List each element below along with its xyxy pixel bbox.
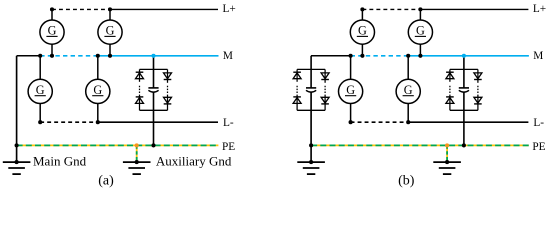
svg-text:M: M	[223, 50, 233, 62]
svg-text:Main Gnd: Main Gnd	[33, 153, 87, 168]
node L+/G2	[108, 7, 112, 11]
node ground symbol left (b)	[309, 160, 313, 164]
svg-text:PE: PE	[222, 141, 235, 153]
diode D1 lower-left (cathode up)	[136, 97, 144, 104]
net L+ (b) dashed wire segment	[362, 8, 420, 10]
D2 left column series dots (more diodes)	[296, 86, 298, 93]
D1 left column wire upper	[139, 69, 141, 81]
wire left network vertical top (b)	[310, 56, 312, 88]
wire right ground stub (green/yellow) (b)	[446, 145, 448, 162]
wire aux network to M (a)	[153, 56, 155, 88]
wire right network to M (b)	[463, 56, 465, 88]
node M/G4	[96, 54, 100, 58]
wire G2 top stub	[109, 9, 111, 20]
source G6 (b, L+ to M)	[408, 20, 432, 44]
source G1 (a, L+ to M)	[40, 20, 64, 44]
source G8 (b, M to L-)	[396, 79, 420, 103]
wire G5 bottom stub	[361, 44, 363, 56]
net L+ (a) dashed wire segment	[52, 8, 110, 10]
svg-text:Auxiliary Gnd: Auxiliary Gnd	[156, 153, 232, 168]
svg-text:(a): (a)	[98, 173, 114, 188]
D2 right column wire lower	[324, 95, 326, 111]
diode D2 lower-right (cathode down)	[321, 97, 329, 104]
diode D1 upper-right (cathode down)	[164, 73, 172, 80]
grounding network D3 bottom rail wire	[450, 109, 478, 111]
wire auxiliary ground stub (green/yellow)	[136, 145, 138, 162]
ground earth symbol right (b)	[433, 162, 461, 174]
D2 left column wire upper	[296, 69, 298, 81]
main ground earth symbol (a)	[3, 162, 31, 174]
D1 right column wire lower	[167, 95, 169, 111]
svg-text:G: G	[358, 23, 367, 37]
D3 left column wire upper	[449, 69, 451, 81]
wire main ground branch vertical (a)	[16, 56, 18, 162]
capacitor D1 curved bottom plate	[148, 90, 158, 92]
svg-text:G: G	[416, 23, 425, 37]
net L- (a) solid wire segment	[98, 121, 218, 123]
node M / aux network (cyan)	[151, 54, 155, 58]
node M/G5	[360, 54, 364, 58]
node L-/G8	[406, 120, 410, 124]
net M (a) black wire from left branch	[17, 55, 41, 57]
auxiliary ground earth symbol (a)	[123, 162, 151, 174]
grounding network D2 top rail wire	[297, 68, 325, 70]
node L+/G5	[360, 7, 364, 11]
D3 left column wire lower	[449, 95, 451, 111]
capacitor D2 curved bottom plate	[306, 90, 316, 92]
D3 right column series dots (more diodes)	[477, 86, 479, 93]
svg-text:G: G	[404, 83, 413, 97]
svg-text:L-: L-	[533, 117, 544, 129]
wire G2 bottom stub	[109, 44, 111, 56]
D2 right column wire upper	[324, 69, 326, 82]
wire M to left network (b) horizontal	[311, 55, 351, 57]
node L-/G4	[96, 120, 100, 124]
svg-text:L+: L+	[533, 3, 546, 15]
net L+ (b) solid wire segment	[420, 8, 528, 10]
svg-text:(b): (b)	[398, 173, 415, 188]
wire G8 bottom stub	[407, 104, 409, 123]
node main ground / PE junction (a)	[15, 143, 19, 147]
diode D2 upper-right (cathode down)	[321, 73, 329, 80]
net M (a) solid cyan wire segment	[98, 55, 219, 57]
D1 left column wire lower	[139, 95, 141, 111]
node M / right network (cyan)	[462, 54, 466, 58]
wire aux network to PE (a)	[153, 92, 155, 145]
node L-/G7	[349, 120, 353, 124]
capacitor D1 midpoint (top plate)	[148, 87, 158, 89]
ground earth symbol left (b)	[297, 162, 325, 174]
wire G3 bottom stub	[39, 104, 41, 123]
node L-/G3	[38, 120, 42, 124]
node L+/G6	[418, 7, 422, 11]
D3 left column series dots (more diodes)	[449, 86, 451, 93]
D3 right column wire lower	[477, 95, 479, 111]
svg-text:G: G	[346, 83, 355, 97]
svg-text:PE: PE	[532, 141, 545, 153]
D2 right column series dots (more diodes)	[324, 86, 326, 93]
wire G5 top stub	[361, 9, 363, 20]
net M (b) black wire from diode ground network	[311, 55, 351, 57]
svg-text:G: G	[36, 83, 45, 97]
capacitor D3 curved bottom plate	[459, 90, 469, 92]
net L+ (a) solid wire segment	[110, 8, 218, 10]
wire G7 top stub	[350, 56, 352, 80]
net L- (a) dashed wire segment	[40, 121, 98, 123]
node PE / auxiliary ground (orange)	[135, 143, 139, 147]
node auxiliary ground symbol junction	[135, 160, 139, 164]
node M/G1	[50, 54, 54, 58]
wire G7 bottom stub	[350, 104, 352, 123]
node M/G3	[38, 54, 42, 58]
svg-text:L-: L-	[223, 117, 234, 129]
capacitor D2 midpoint (top plate)	[306, 87, 316, 89]
net PE (b) green/yellow earth wire	[311, 144, 529, 146]
D3 right column wire upper	[477, 69, 479, 82]
grounding network D3 top rail wire	[450, 68, 478, 70]
wire G8 top stub	[407, 56, 409, 80]
source G4 (a, M to L-)	[86, 79, 110, 103]
source G2 (a, L+ to M)	[98, 20, 122, 44]
net M (b) solid cyan wire segment	[408, 55, 529, 57]
net M (a) dashed cyan wire segment	[40, 55, 98, 57]
net L- (b) solid wire segment	[408, 121, 528, 123]
diode D2 upper-left (cathode up)	[293, 72, 301, 79]
node M/G7	[349, 54, 353, 58]
source G5 (b, L+ to M)	[350, 20, 374, 44]
node M/G6	[418, 54, 422, 58]
diode D1 upper-left (cathode up)	[136, 72, 144, 79]
node right ground symbol junction (b)	[445, 160, 449, 164]
wire G6 top stub	[419, 9, 421, 20]
net PE (a) green/yellow earth wire	[17, 144, 219, 146]
svg-text:G: G	[106, 23, 115, 37]
node PE / right network	[462, 143, 466, 147]
node M/G2	[108, 54, 112, 58]
node M/G8	[406, 54, 410, 58]
D1 left column series dots (more diodes)	[139, 86, 141, 93]
node main ground symbol junction (a)	[15, 160, 19, 164]
source G7 (b, M to L-)	[339, 79, 363, 103]
node L+/G1	[50, 7, 54, 11]
wire G1 bottom stub	[51, 44, 53, 56]
diode D3 upper-left (cathode up)	[446, 72, 454, 79]
wire G4 bottom stub	[97, 104, 99, 123]
grounding network D1 bottom rail wire	[140, 109, 168, 111]
wire G3 top stub	[39, 56, 41, 80]
D1 right column wire upper	[167, 69, 169, 82]
svg-text:L+: L+	[223, 3, 236, 15]
grounding network D1 top rail wire	[140, 68, 168, 70]
net M (b) dashed cyan wire segment	[351, 55, 409, 57]
net L- (b) dashed wire segment	[351, 121, 409, 123]
diode D3 upper-right (cathode down)	[474, 73, 482, 80]
D1 right column series dots (more diodes)	[167, 86, 169, 93]
diode D2 lower-left (cathode up)	[293, 97, 301, 104]
svg-text:M: M	[533, 50, 543, 62]
wire G6 bottom stub	[419, 44, 421, 56]
wire G1 top stub	[51, 9, 53, 20]
node PE / left network (b)	[309, 143, 313, 147]
wire G4 top stub	[97, 56, 99, 80]
node PE / right ground (orange)	[445, 143, 449, 147]
diode D3 lower-right (cathode down)	[474, 97, 482, 104]
svg-text:G: G	[48, 23, 57, 37]
capacitor D3 midpoint (top plate)	[459, 87, 469, 89]
svg-text:G: G	[93, 83, 102, 97]
source G3 (a, M to L-)	[28, 79, 52, 103]
D2 left column wire lower	[296, 95, 298, 111]
diode D1 lower-right (cathode down)	[164, 97, 172, 104]
grounding network D2 bottom rail wire	[297, 109, 325, 111]
wire left network vertical bottom to ground (b)	[310, 92, 312, 162]
node PE / aux network	[151, 143, 155, 147]
wire right network to PE (b)	[463, 92, 465, 145]
diode D3 lower-left (cathode up)	[446, 97, 454, 104]
